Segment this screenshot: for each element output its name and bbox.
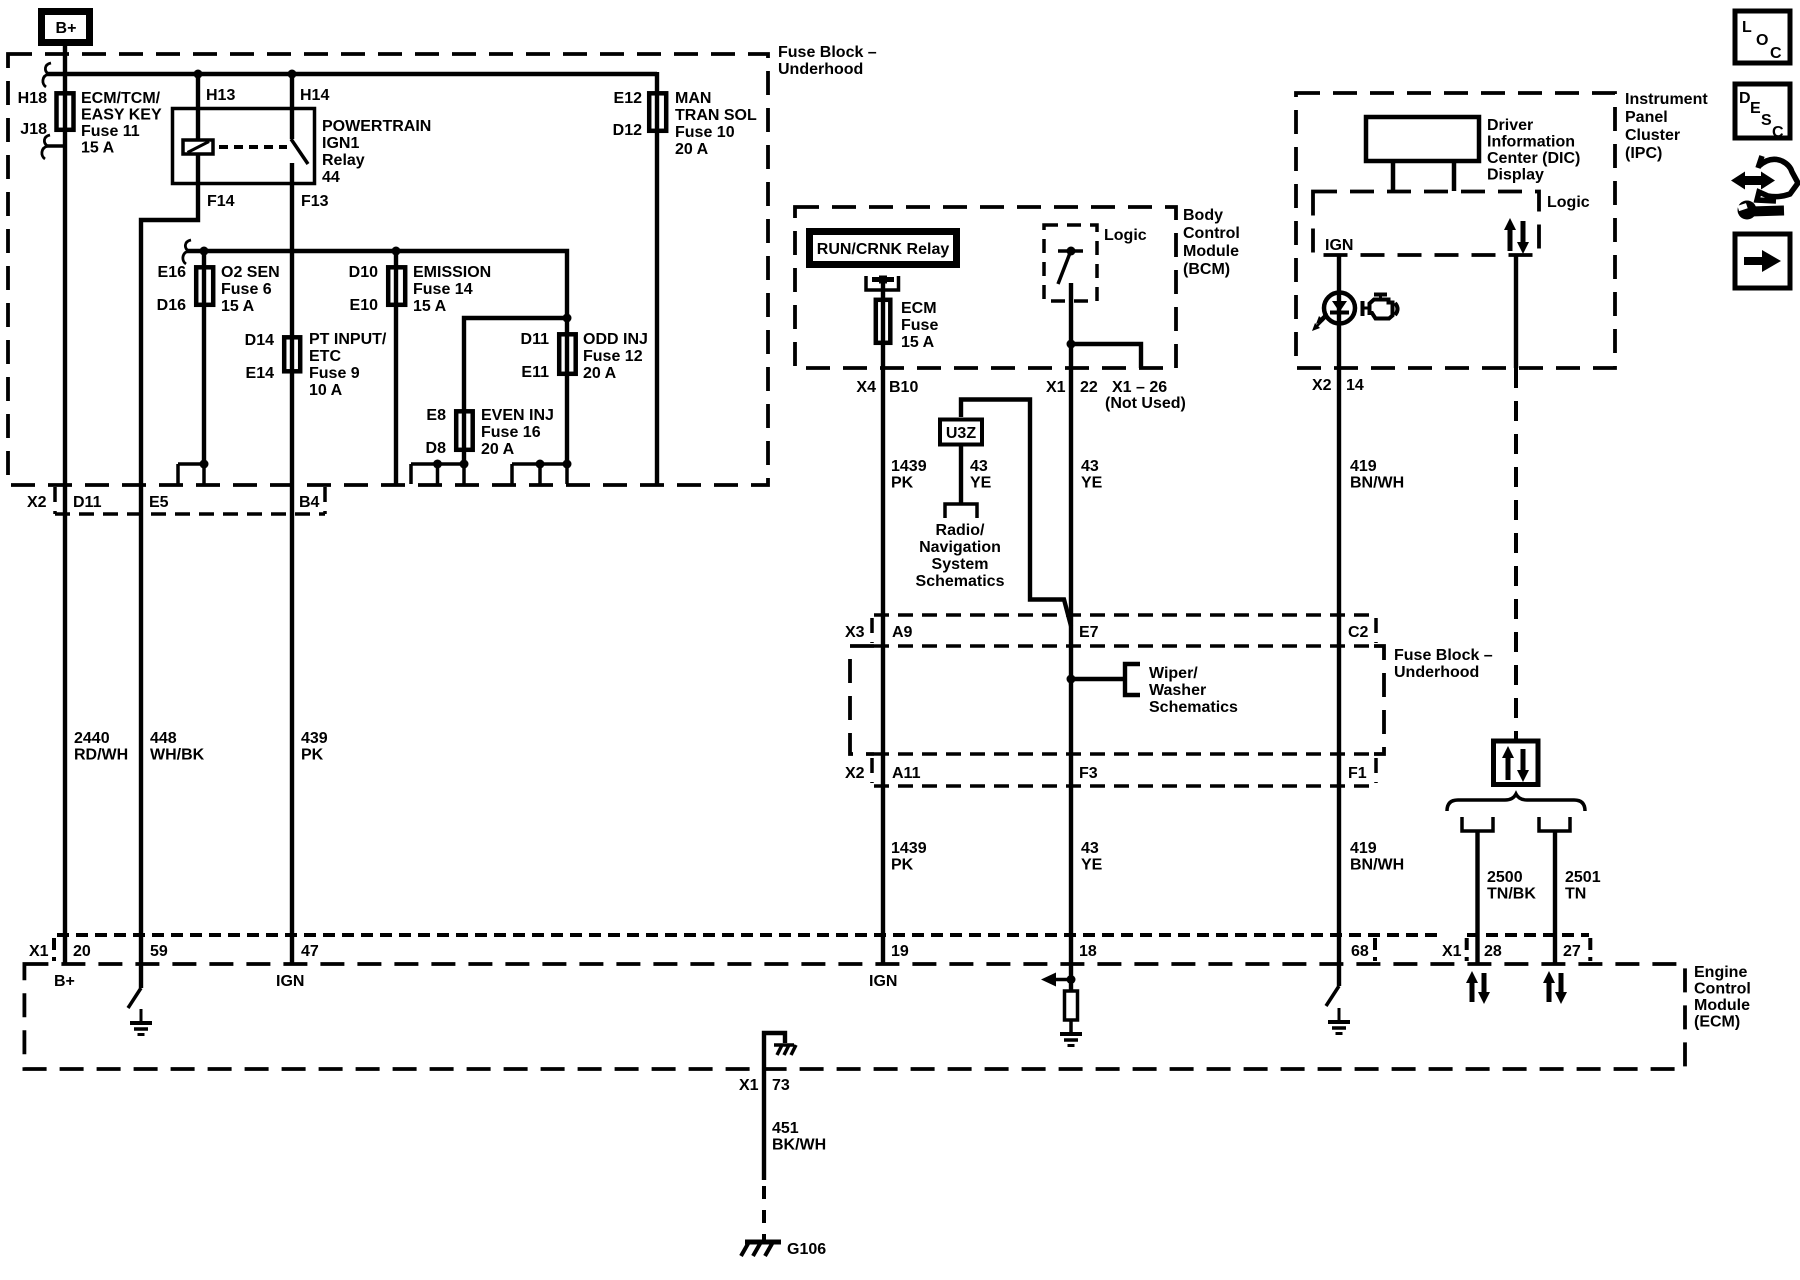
wire switch to F13 [290, 163, 294, 185]
relay RUN/CRNK label box [810, 232, 957, 265]
wire coil to F14 [196, 154, 200, 185]
svg-text:YE: YE [1081, 475, 1103, 492]
svg-text:J18: J18 [20, 121, 47, 138]
internal chassis ground [774, 1045, 796, 1055]
fuse MAN TRAN SOL Fuse 10 [613, 90, 757, 158]
relay switch blade [291, 139, 308, 164]
label DIC display [1487, 117, 1580, 184]
svg-text:IGN1: IGN1 [322, 135, 359, 152]
svg-text:43: 43 [970, 458, 988, 475]
svg-text:EMISSION: EMISSION [413, 264, 491, 281]
node junction X1-26 branch [1067, 340, 1076, 349]
svg-text:O2 SEN: O2 SEN [221, 264, 280, 281]
svg-text:Schematics: Schematics [916, 573, 1005, 590]
brace splice under serial box [1447, 794, 1585, 811]
svg-text:EVEN INJ: EVEN INJ [481, 407, 554, 424]
serial data arrows in logic [1504, 218, 1529, 254]
svg-text:(ECM): (ECM) [1694, 1014, 1740, 1031]
svg-text:C: C [1772, 124, 1784, 141]
wire below U3Z [959, 444, 963, 503]
svg-text:Fuse Block –: Fuse Block – [778, 44, 877, 61]
svg-text:BN/WH: BN/WH [1350, 475, 1404, 492]
wire label 448 WH/BK [150, 730, 205, 764]
svg-text:Display: Display [1487, 167, 1544, 184]
svg-text:POWERTRAIN: POWERTRAIN [322, 118, 431, 135]
svg-text:Fuse 6: Fuse 6 [221, 281, 272, 298]
svg-text:BK/WH: BK/WH [772, 1137, 826, 1154]
svg-text:73: 73 [772, 1077, 790, 1094]
ground under pin 18 [1060, 1034, 1082, 1046]
svg-text:15 A: 15 A [413, 298, 447, 315]
svg-text:15 A: 15 A [901, 334, 935, 351]
svg-text:10 A: 10 A [309, 382, 343, 399]
svg-text:Cluster: Cluster [1625, 127, 1680, 144]
wire label 2500 TN/BK [1487, 869, 1536, 903]
wire to fuse 6 [202, 251, 206, 464]
svg-text:PK: PK [891, 857, 914, 874]
engine control module ECM dashed box [24, 964, 1685, 1069]
svg-text:E: E [1750, 100, 1761, 117]
off-page connector to radio schematics [945, 504, 977, 518]
svg-text:Logic: Logic [1547, 194, 1590, 211]
svg-text:Fuse 12: Fuse 12 [583, 348, 643, 365]
svg-text:Control: Control [1694, 981, 1751, 998]
svg-text:451: 451 [772, 1120, 799, 1137]
svg-text:14: 14 [1346, 377, 1364, 394]
wire label 2440 RD/WH [74, 730, 128, 764]
svg-text:19: 19 [891, 943, 909, 960]
svg-text:2501: 2501 [1565, 869, 1601, 886]
svg-text:F3: F3 [1079, 765, 1098, 782]
fuse block underhood (middle) dashed box [850, 646, 1384, 754]
svg-text:Body: Body [1183, 207, 1223, 224]
wire label 1439 PK lower [891, 840, 927, 874]
connector comb under fuse 6 [178, 460, 209, 485]
off-page bracket wiper washer [1125, 664, 1140, 695]
svg-text:X4: X4 [856, 379, 876, 396]
svg-text:YE: YE [970, 475, 992, 492]
svg-text:E14: E14 [246, 365, 275, 382]
svg-text:(Not Used): (Not Used) [1105, 395, 1186, 412]
logic box in BCM [1044, 225, 1147, 301]
wire 2500 TN/BK to pin 28 [1475, 831, 1479, 964]
wire to fuse 14 [394, 251, 398, 485]
arrow input pin 18 [1041, 964, 1076, 991]
svg-text:C2: C2 [1348, 624, 1369, 641]
serial arrows under pin 27 [1543, 971, 1567, 1004]
svg-text:A11: A11 [892, 765, 921, 782]
label ECM nets [54, 973, 897, 990]
label ECM [1694, 964, 1751, 1031]
svg-text:20 A: 20 A [675, 141, 709, 158]
label radio navigation schematics [916, 522, 1005, 590]
svg-text:D11: D11 [521, 331, 550, 348]
svg-text:F13: F13 [301, 193, 329, 210]
svg-text:27: 27 [1563, 943, 1581, 960]
connector U3Z [940, 420, 982, 445]
svg-text:E12: E12 [614, 90, 643, 107]
wire F14 to E5 jog [141, 185, 198, 964]
svg-text:2500: 2500 [1487, 869, 1523, 886]
connector X2 row middle [845, 754, 1376, 786]
fuse ECM Fuse 15A in BCM [876, 300, 939, 351]
svg-text:S: S [1761, 112, 1772, 129]
svg-text:Control: Control [1183, 225, 1240, 242]
wire label 419 BN/WH lower [1350, 840, 1404, 874]
svg-text:Module: Module [1183, 243, 1239, 260]
ground G106 [741, 1241, 826, 1258]
connector X3 row [845, 615, 1376, 646]
svg-text:43: 43 [1081, 840, 1099, 857]
body control module BCM dashed box [795, 207, 1176, 368]
svg-text:E8: E8 [426, 407, 446, 424]
svg-text:X1: X1 [1046, 379, 1066, 396]
svg-text:WH/BK: WH/BK [150, 747, 205, 764]
splice hook at J18 stub [42, 135, 50, 159]
svg-text:Fuse 11: Fuse 11 [81, 123, 140, 140]
wire X1-26 not used stub [1071, 344, 1141, 368]
fuse PT INPUT/ETC Fuse 9 [245, 331, 387, 399]
wire IGN down from logic [1337, 255, 1341, 964]
wire pin 22 down [1069, 283, 1073, 964]
wire serial data dashed to ECM [1514, 368, 1518, 740]
svg-text:IGN: IGN [276, 973, 304, 990]
svg-text:1439: 1439 [891, 840, 927, 857]
wire terminal to ECM fuse [881, 279, 885, 964]
wire resistor to ground [1069, 1020, 1073, 1034]
connector comb under fuse 12 [512, 460, 572, 485]
svg-text:E16: E16 [158, 264, 187, 281]
svg-text:H13: H13 [206, 87, 235, 104]
wire branch to even inj [464, 318, 567, 464]
svg-text:RUN/CRNK Relay: RUN/CRNK Relay [817, 241, 950, 258]
svg-text:2440: 2440 [74, 730, 110, 747]
svg-text:Instrument: Instrument [1625, 91, 1708, 108]
wire label 43 YE upper [1081, 458, 1103, 492]
svg-text:PK: PK [301, 747, 324, 764]
wire label 1439 PK upper [891, 458, 927, 492]
node junction H13 [194, 70, 203, 79]
wire label 439 PK [301, 730, 328, 764]
svg-text:G106: G106 [787, 1241, 826, 1258]
fuse block underhood (top) dashed box [8, 54, 768, 485]
label IPC [1625, 91, 1708, 162]
svg-text:ECM: ECM [901, 300, 937, 317]
relay coil [183, 140, 213, 154]
svg-text:B4: B4 [299, 494, 320, 511]
svg-text:448: 448 [150, 730, 177, 747]
svg-text:RD/WH: RD/WH [74, 747, 128, 764]
svg-text:D14: D14 [245, 332, 274, 349]
svg-text:B+: B+ [56, 20, 77, 37]
wire ignition bus 2 [186, 251, 567, 318]
wire wiper washer branch [1071, 677, 1125, 681]
wire B+ feed vertical [63, 46, 67, 93]
indicator LED lamp [1312, 293, 1355, 332]
check engine MIL icon [1363, 295, 1398, 319]
label IPC bottom pins X2 14 [1312, 377, 1364, 394]
svg-text:TRAN SOL: TRAN SOL [675, 107, 757, 124]
svg-text:BN/WH: BN/WH [1350, 857, 1404, 874]
label BCM [1183, 207, 1240, 278]
wire to fuse 12 [565, 318, 569, 464]
svg-text:X1: X1 [29, 943, 49, 960]
svg-text:20: 20 [73, 943, 91, 960]
svg-text:Logic: Logic [1104, 227, 1147, 244]
wire U3Z tap to pin 22 wire [961, 400, 1071, 627]
wire main bus [46, 72, 657, 76]
svg-text:15 A: 15 A [81, 140, 115, 157]
battery feed B+ [42, 12, 90, 43]
svg-text:H14: H14 [300, 87, 329, 104]
svg-text:ECM/TCM/: ECM/TCM/ [81, 90, 161, 107]
svg-text:D12: D12 [613, 122, 642, 139]
svg-text:A9: A9 [892, 624, 913, 641]
wire to fuse 10 [655, 72, 659, 485]
svg-text:Fuse 10: Fuse 10 [675, 124, 735, 141]
fuse ECM/TCM/EASY KEY Fuse 11 [18, 90, 162, 157]
label X1 73 [739, 1077, 790, 1094]
svg-text:B10: B10 [889, 379, 918, 396]
node junction wiper branch [1067, 675, 1076, 684]
svg-text:System: System [932, 556, 989, 573]
splice hook left of bus [43, 63, 51, 87]
svg-text:Navigation: Navigation [919, 539, 1001, 556]
svg-text:(BCM): (BCM) [1183, 261, 1230, 278]
svg-text:Wiper/: Wiper/ [1149, 665, 1198, 682]
wire DIC leg left [1391, 161, 1396, 191]
svg-text:D: D [1739, 90, 1751, 107]
svg-text:YE: YE [1081, 857, 1103, 874]
fuse O2 SEN Fuse 6 [157, 264, 280, 315]
svg-text:O: O [1756, 32, 1768, 49]
svg-text:1439: 1439 [891, 458, 927, 475]
internal ground wire pin 73 [764, 1033, 785, 1069]
svg-text:D16: D16 [157, 297, 186, 314]
svg-text:F1: F1 [1348, 765, 1367, 782]
svg-text:L: L [1742, 19, 1752, 36]
wire label 43 YE U3Z [970, 458, 992, 492]
serial data bidirectional box [1494, 741, 1539, 785]
svg-text:X1 – 26: X1 – 26 [1112, 379, 1167, 396]
icon arrow box [1735, 234, 1790, 288]
svg-text:Driver: Driver [1487, 117, 1533, 134]
label wiper washer schematics [1149, 665, 1238, 716]
ECM connector X1 small-dash line [54, 935, 1437, 961]
ground under pin 59 [130, 1009, 152, 1035]
svg-text:28: 28 [1484, 943, 1502, 960]
svg-text:Underhood: Underhood [1394, 664, 1479, 681]
label BCM bottom pins [856, 379, 1185, 412]
svg-text:IGN: IGN [869, 973, 897, 990]
svg-text:D11: D11 [73, 494, 102, 511]
svg-text:X3: X3 [845, 624, 865, 641]
svg-text:X2: X2 [27, 494, 47, 511]
svg-text:Fuse: Fuse [901, 317, 938, 334]
icon DESC box [1735, 84, 1790, 141]
svg-text:B+: B+ [54, 973, 75, 990]
wire label 2501 TN [1565, 869, 1601, 903]
label fuse block underhood middle [1394, 647, 1493, 681]
wire DIC leg right [1452, 161, 1457, 191]
svg-text:PK: PK [891, 475, 914, 492]
DIC display box [1366, 117, 1479, 161]
node junction odd/even branch [563, 314, 572, 323]
relay output terminal cup [866, 276, 899, 291]
svg-text:Fuse Block –: Fuse Block – [1394, 647, 1493, 664]
label ECM pins [29, 943, 1581, 960]
svg-text:Engine: Engine [1694, 964, 1747, 981]
wire H13 coil leg [196, 74, 200, 140]
svg-text:TN/BK: TN/BK [1487, 886, 1536, 903]
svg-text:TN: TN [1565, 886, 1586, 903]
svg-text:E7: E7 [1079, 624, 1099, 641]
svg-text:Information: Information [1487, 134, 1575, 151]
stub to other circuits at J18 [46, 144, 65, 148]
svg-text:Underhood: Underhood [778, 61, 863, 78]
label fuse block underhood [778, 44, 877, 78]
svg-text:Fuse 9: Fuse 9 [309, 365, 360, 382]
svg-text:E10: E10 [350, 297, 379, 314]
svg-text:U3Z: U3Z [946, 425, 976, 442]
icon adjust wrench [1731, 156, 1798, 220]
fuse ODD INJ Fuse 12 [521, 331, 648, 382]
wire F13 down through B4 to ECM pin 47 [290, 185, 294, 964]
ECM connector X1 box pins 28 27 [1467, 935, 1591, 961]
wire below fuse 11 down to ECM pin 20 [63, 91, 67, 964]
svg-text:X1: X1 [739, 1077, 759, 1094]
svg-text:Radio/: Radio/ [936, 522, 985, 539]
wire label 451 BK/WH [772, 1120, 826, 1154]
svg-text:EASY KEY: EASY KEY [81, 107, 162, 124]
connector comb under fuse 16 [411, 460, 469, 485]
relay dashed actuating link [219, 145, 287, 149]
svg-text:D8: D8 [426, 440, 447, 457]
svg-text:Panel: Panel [1625, 109, 1668, 126]
ground under pin 68 [1328, 1008, 1350, 1034]
node junction EMISSION [392, 247, 401, 256]
fuse EMISSION Fuse 14 [349, 264, 492, 315]
svg-text:Washer: Washer [1149, 682, 1206, 699]
svg-text:419: 419 [1350, 840, 1377, 857]
svg-text:ETC: ETC [309, 348, 341, 365]
fuse EVEN INJ Fuse 16 [426, 407, 554, 458]
svg-text:C: C [1770, 45, 1782, 62]
switch to ground pin 68 [1326, 964, 1339, 1006]
serial arrows under pin 28 [1466, 971, 1490, 1004]
icon LOC box [1735, 11, 1790, 63]
svg-text:X1: X1 [1442, 943, 1462, 960]
node junction O2 SEN [200, 247, 209, 256]
svg-text:47: 47 [301, 943, 319, 960]
svg-text:43: 43 [1081, 458, 1099, 475]
connector X2 row below fuse block [27, 487, 325, 514]
terminal cup wire 2500 [1462, 817, 1493, 831]
svg-text:H18: H18 [18, 90, 47, 107]
svg-text:PT INPUT/: PT INPUT/ [309, 331, 387, 348]
svg-text:Center (DIC): Center (DIC) [1487, 150, 1580, 167]
logic box in IPC [1313, 192, 1590, 256]
svg-text:X2: X2 [845, 765, 865, 782]
svg-text:X2: X2 [1312, 377, 1332, 394]
svg-text:20 A: 20 A [583, 365, 617, 382]
svg-text:E11: E11 [521, 364, 549, 381]
svg-text:419: 419 [1350, 458, 1377, 475]
splice hook left of bus 2 [183, 240, 191, 264]
svg-text:D10: D10 [349, 264, 378, 281]
wire label 43 YE lower [1081, 840, 1103, 874]
svg-text:Fuse 14: Fuse 14 [413, 281, 473, 298]
svg-text:F14: F14 [207, 193, 235, 210]
svg-text:Fuse 16: Fuse 16 [481, 424, 541, 441]
wire ground 451 BK/WH [762, 1069, 766, 1180]
svg-text:44: 44 [322, 169, 340, 186]
logic switch in BCM [1058, 247, 1083, 285]
wire H14 switch leg [290, 74, 294, 139]
relay POWERTRAIN IGN1 Relay 44 [173, 87, 432, 210]
wire serial data in IPC [1514, 255, 1518, 368]
switch to ground pin 59 [128, 964, 141, 1008]
instrument panel cluster IPC dashed box [1296, 93, 1615, 368]
svg-text:15 A: 15 A [221, 298, 255, 315]
svg-text:68: 68 [1351, 943, 1369, 960]
svg-text:IGN: IGN [1325, 237, 1353, 254]
svg-text:ODD INJ: ODD INJ [583, 331, 648, 348]
node junction H14 [288, 70, 297, 79]
svg-text:(IPC): (IPC) [1625, 145, 1662, 162]
svg-text:439: 439 [301, 730, 328, 747]
svg-text:Relay: Relay [322, 152, 365, 169]
wire dashed to G106 [762, 1186, 766, 1240]
wire 2501 TN to pin 27 [1553, 831, 1557, 964]
svg-text:59: 59 [150, 943, 168, 960]
wire label 419 BN/WH upper [1350, 458, 1404, 492]
svg-text:20 A: 20 A [481, 441, 515, 458]
svg-text:Schematics: Schematics [1149, 699, 1238, 716]
svg-text:E5: E5 [149, 494, 169, 511]
terminal cup wire 2501 [1539, 817, 1570, 831]
svg-text:MAN: MAN [675, 90, 711, 107]
svg-text:18: 18 [1079, 943, 1097, 960]
svg-text:Module: Module [1694, 997, 1750, 1014]
svg-text:22: 22 [1080, 379, 1098, 396]
resistor pin 18 [1065, 991, 1078, 1020]
